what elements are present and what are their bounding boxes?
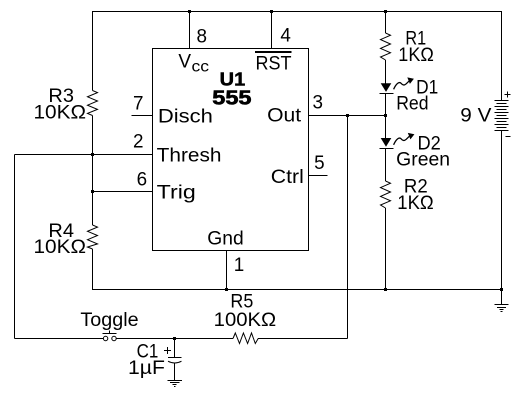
svg-text:Ctrl: Ctrl <box>271 167 304 188</box>
svg-text:10KΩ: 10KΩ <box>34 237 87 258</box>
svg-text:R5: R5 <box>230 291 253 312</box>
svg-text:Red: Red <box>396 93 428 114</box>
svg-text:1KΩ: 1KΩ <box>397 193 433 214</box>
svg-text:Toggle: Toggle <box>80 310 138 331</box>
svg-text:10KΩ: 10KΩ <box>34 103 87 124</box>
svg-text:1: 1 <box>234 255 245 276</box>
svg-text:Green: Green <box>396 149 450 170</box>
svg-text:2: 2 <box>133 132 144 153</box>
svg-text:1µF: 1µF <box>128 358 165 379</box>
svg-text:7: 7 <box>133 94 144 115</box>
svg-text:4: 4 <box>280 26 291 47</box>
svg-text:555: 555 <box>212 87 251 109</box>
svg-text:Out: Out <box>267 106 302 127</box>
svg-text:Thresh: Thresh <box>157 146 222 167</box>
svg-text:cc: cc <box>192 59 210 76</box>
svg-text:RST: RST <box>256 53 292 74</box>
svg-text:Trig: Trig <box>157 182 196 203</box>
svg-text:Disch: Disch <box>158 107 213 128</box>
svg-text:100KΩ: 100KΩ <box>214 310 277 331</box>
svg-text:6: 6 <box>137 169 148 190</box>
svg-text:Gnd: Gnd <box>207 229 243 250</box>
svg-text:V: V <box>178 52 191 73</box>
svg-text:5: 5 <box>314 153 325 174</box>
svg-text:9 V: 9 V <box>460 106 491 127</box>
svg-text:3: 3 <box>313 93 324 114</box>
svg-text:1KΩ: 1KΩ <box>398 45 434 66</box>
svg-text:8: 8 <box>197 26 208 47</box>
